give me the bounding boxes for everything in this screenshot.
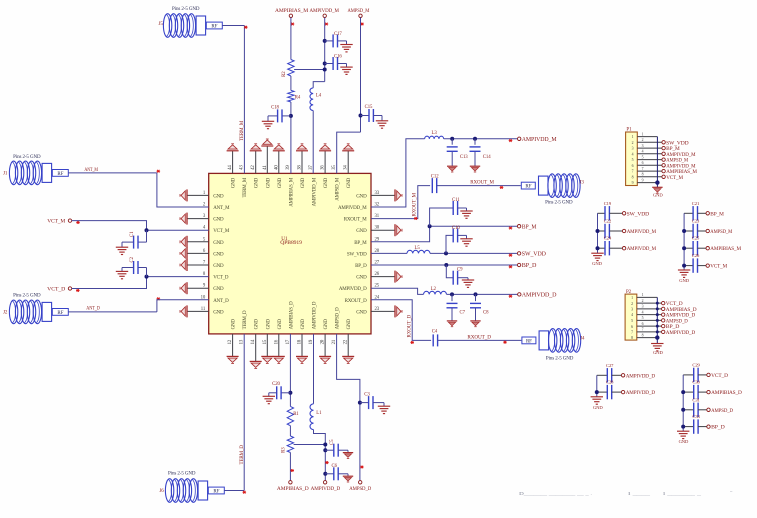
svg-text:8: 8	[632, 175, 634, 179]
power flag AMPSD_M	[662, 158, 665, 161]
wire to pin 37	[312, 111, 314, 174]
wire to J6	[224, 490, 244, 492]
wire	[290, 76, 292, 90]
svg-text:RXOUT_M: RXOUT_M	[470, 180, 494, 186]
capacitor C24	[598, 247, 606, 249]
svg-text:1: 1	[642, 132, 644, 136]
capacitor C25	[684, 247, 693, 249]
svg-text:VCT_M: VCT_M	[666, 175, 683, 181]
svg-text:Pins 2-5 GND: Pins 2-5 GND	[172, 7, 200, 12]
ground cap bank	[677, 431, 689, 438]
wire TERM_M	[222, 25, 244, 27]
svg-text:C6: C6	[332, 464, 338, 469]
svg-text:ANT_D: ANT_D	[213, 299, 229, 304]
wire ANT_D	[68, 311, 157, 313]
svg-text:GND: GND	[213, 310, 224, 315]
wire AMPIBIAS_D pin 17	[289, 334, 291, 407]
svg-text:AMPSD_M: AMPSD_M	[336, 177, 341, 201]
svg-text:C5: C5	[330, 439, 335, 445]
svg-text:J1: J1	[3, 171, 8, 176]
svg-text:5: 5	[642, 155, 644, 159]
capacitor C29	[683, 374, 694, 376]
ground pin 5	[187, 241, 208, 243]
ground P2	[651, 344, 663, 351]
wire pin 19	[313, 334, 315, 404]
ground cap bank	[591, 253, 603, 260]
resistor R1	[287, 406, 293, 425]
svg-text:C26: C26	[692, 253, 700, 258]
svg-text:RXOUT_M: RXOUT_M	[344, 218, 368, 223]
svg-text:3: 3	[632, 147, 634, 151]
power flag SW_VDD	[662, 141, 665, 144]
wire P2 pin 4	[637, 314, 662, 316]
svg-text:RF: RF	[57, 172, 63, 177]
svg-text:RF: RF	[57, 311, 63, 316]
wire AMPIBIAS_M	[290, 18, 292, 60]
ground pin 12	[232, 334, 234, 357]
svg-text:C31: C31	[692, 397, 700, 402]
svg-text:8: 8	[631, 336, 633, 340]
connector J4	[522, 337, 536, 344]
svg-text:ANT_D: ANT_D	[86, 306, 100, 312]
svg-text:GND: GND	[679, 439, 689, 444]
svg-text:C2: C2	[130, 256, 135, 262]
wire pin 27 BP_D	[371, 264, 518, 266]
wire P2 pin 8	[637, 337, 658, 339]
svg-text:1: 1	[632, 135, 634, 139]
op-amp U1 QPB8919 IC body	[209, 173, 371, 334]
capacitor C4	[433, 334, 437, 346]
svg-text:RF: RF	[211, 25, 217, 30]
svg-text:C20: C20	[272, 382, 280, 387]
svg-text:8: 8	[642, 333, 644, 337]
svg-text:AMPIVDD_D: AMPIVDD_D	[339, 287, 367, 292]
svg-text:VCT_D: VCT_D	[213, 276, 229, 281]
ground pin 42	[255, 151, 257, 174]
svg-text:C25: C25	[692, 236, 700, 241]
svg-text:R2: R2	[282, 71, 287, 77]
wire cap bank bus	[596, 375, 598, 397]
svg-text:BP_D: BP_D	[522, 263, 537, 269]
svg-text:4: 4	[631, 313, 633, 317]
power flag AMPIVDD_D	[621, 390, 624, 393]
wire	[289, 426, 291, 436]
wire C1	[146, 230, 148, 242]
ground pin 34	[347, 151, 349, 174]
ground C16	[340, 67, 352, 74]
svg-text:AMPIVDD_M: AMPIVDD_M	[313, 177, 318, 206]
power flag AMPIVDD_M	[662, 164, 665, 167]
svg-text:R3: R3	[282, 447, 287, 453]
power flag AMPIBIAS_M	[706, 247, 709, 250]
svg-text:D_______ ________ __ _ .: D_______ ________ __ _ .	[519, 491, 592, 496]
inductor L2	[424, 291, 447, 294]
ground C5	[343, 453, 353, 459]
capacitor C30	[683, 391, 694, 393]
power flag BP_D	[517, 263, 520, 266]
svg-text:GND: GND	[324, 319, 329, 330]
svg-text:C16: C16	[334, 55, 342, 60]
svg-text:C21: C21	[692, 201, 700, 206]
svg-text:GND: GND	[356, 310, 367, 315]
inductor L3	[425, 136, 444, 139]
ground pin 40	[278, 151, 280, 174]
svg-text:Pins 2-5 GND: Pins 2-5 GND	[545, 201, 573, 206]
power flag SW_VDD	[622, 212, 625, 215]
capacitor C21	[684, 212, 693, 214]
capacitor C10	[446, 235, 453, 253]
svg-text:P1: P1	[626, 128, 632, 133]
svg-text:GND: GND	[266, 319, 271, 330]
capacitor C33	[683, 426, 694, 428]
wire TERM_D	[243, 334, 245, 491]
svg-text:AMPSD_M: AMPSD_M	[348, 8, 370, 14]
wire to pin 2	[157, 173, 209, 207]
svg-text:VCT_M: VCT_M	[47, 219, 65, 225]
svg-text:C13: C13	[460, 155, 468, 160]
wire pin 25	[371, 288, 424, 294]
ground pin 9	[187, 287, 208, 289]
wire P2 pin 6	[637, 325, 662, 327]
svg-text:C17: C17	[334, 32, 342, 37]
wire P1 pin 4	[637, 153, 662, 155]
power flag AMPIVDD_M	[622, 247, 625, 250]
ground C9	[462, 280, 474, 287]
ground pin 14	[255, 334, 257, 362]
svg-text:RXOUT_M: RXOUT_M	[412, 192, 417, 216]
svg-text:2: 2	[642, 138, 644, 142]
svg-text:9: 9	[642, 178, 644, 182]
ground C10	[460, 239, 472, 246]
svg-text:6: 6	[632, 164, 634, 168]
svg-text:l ____: l ____	[628, 491, 652, 496]
wire P1 pin 1	[637, 136, 657, 138]
wire pin 31 RXOUT_M	[371, 186, 430, 219]
svg-text:GND: GND	[278, 319, 283, 330]
svg-text:ANT_M: ANT_M	[213, 206, 230, 211]
svg-text:AMPIVDD_M: AMPIVDD_M	[627, 246, 657, 252]
svg-text:5: 5	[642, 316, 644, 320]
wire pin 28	[371, 252, 407, 254]
wire P2 pin 1	[637, 296, 658, 298]
svg-text:BP_M: BP_M	[710, 211, 724, 217]
ground C14	[470, 166, 480, 172]
svg-text:C23: C23	[692, 219, 700, 224]
power flag AMPIVDD_D	[518, 293, 521, 296]
svg-text:ANT_M: ANT_M	[84, 167, 98, 173]
ground C17	[340, 45, 352, 52]
svg-text:TERM_M: TERM_M	[240, 120, 245, 141]
svg-text:5: 5	[632, 158, 634, 162]
ground pin 23	[371, 310, 395, 312]
svg-text:AMPIVDD_D: AMPIVDD_D	[626, 390, 656, 396]
svg-text:AMPIVDD_D: AMPIVDD_D	[666, 330, 696, 336]
svg-text:C24: C24	[604, 236, 612, 241]
wire P2 pin 3	[637, 308, 662, 310]
svg-text:VCT_D: VCT_D	[47, 287, 65, 293]
svg-text:VCT_M: VCT_M	[710, 264, 727, 270]
svg-text:GND: GND	[356, 194, 367, 199]
svg-text:AMPIVDD_D: AMPIVDD_D	[626, 373, 656, 379]
ground pin 41	[266, 146, 268, 173]
ground pin 1	[187, 194, 208, 196]
wire to pin 39	[290, 102, 292, 173]
svg-text:6: 6	[642, 322, 644, 326]
wire AMPIVDD_D flag	[447, 293, 518, 295]
wire P2 pin 5	[637, 319, 662, 321]
svg-text:GND: GND	[653, 350, 663, 355]
svg-text:3: 3	[631, 308, 633, 312]
svg-text:AMPIVDD_D: AMPIVDD_D	[311, 486, 341, 492]
svg-text:BP_D: BP_D	[711, 425, 725, 431]
svg-text:Pins 2-5 GND: Pins 2-5 GND	[13, 294, 41, 299]
wire P2 pin 2	[637, 302, 662, 304]
ground C2	[116, 271, 128, 278]
svg-text:C14: C14	[483, 155, 491, 160]
inductor L4	[310, 88, 313, 111]
power flag AMPIBIAS_M	[662, 169, 665, 172]
power flag AMPSD_M	[706, 229, 709, 232]
ground pin 38	[301, 151, 303, 174]
svg-text:AMPIVDD_M: AMPIVDD_M	[627, 229, 657, 235]
svg-text:AMPSD_D: AMPSD_D	[349, 486, 371, 492]
wire P2 gnd bus	[656, 297, 658, 343]
wire to flag	[289, 453, 291, 481]
wire RXOUT_D	[438, 339, 522, 341]
capacitor C28	[597, 391, 608, 393]
svg-text:C28: C28	[606, 380, 614, 385]
svg-text:C22: C22	[604, 219, 612, 224]
wire pin 29 BP_M	[371, 226, 518, 242]
svg-text:AMPIBIAS_D: AMPIBIAS_D	[711, 390, 742, 396]
power flag BP_D	[707, 425, 710, 428]
svg-text:BP_D: BP_D	[355, 264, 367, 269]
svg-text:AMPIVDD_D: AMPIVDD_D	[522, 293, 557, 299]
wire AMPIVDD_M	[324, 18, 326, 82]
svg-text:GND: GND	[213, 287, 224, 292]
capacitor C3	[360, 402, 369, 404]
svg-text:GND: GND	[593, 405, 603, 410]
svg-text:GND: GND	[301, 319, 306, 330]
svg-text:AMPSD_M: AMPSD_M	[710, 229, 732, 235]
svg-text:2: 2	[642, 299, 644, 303]
ground C3	[378, 406, 390, 413]
capacitor C11	[430, 208, 454, 226]
wire R3 to AMPIVDD_D net	[294, 444, 326, 446]
wire AMPSD_M	[360, 18, 362, 133]
svg-text:L2: L2	[431, 287, 437, 292]
power flag AMPIVDD_D	[662, 330, 665, 333]
capacitor C5	[325, 449, 334, 451]
svg-text:GND: GND	[278, 177, 283, 188]
ground cap bank	[591, 397, 603, 404]
capacitor C13	[451, 139, 453, 145]
wire cap bank bus	[597, 213, 599, 253]
wire VCT_M	[72, 221, 209, 231]
svg-text:RXOUT_D: RXOUT_D	[345, 299, 368, 304]
svg-text:GND: GND	[592, 261, 602, 266]
svg-text:BP_M: BP_M	[522, 224, 537, 230]
svg-text:L5: L5	[415, 246, 421, 251]
wire C2	[146, 268, 148, 277]
svg-text:C18: C18	[271, 106, 279, 111]
svg-text:AMPSD_D: AMPSD_D	[336, 307, 341, 330]
power flag AMPSD_D	[359, 481, 362, 484]
svg-text:4: 4	[632, 152, 634, 156]
capacitor C6	[325, 473, 334, 475]
power flag BP_M	[662, 146, 665, 149]
connector J3	[521, 182, 535, 189]
inductor L1	[310, 404, 314, 430]
ground C1	[116, 247, 128, 254]
svg-text:P2: P2	[626, 290, 632, 295]
svg-text:L4: L4	[316, 94, 322, 99]
svg-text:9: 9	[632, 181, 634, 185]
connector header P1	[626, 132, 638, 186]
svg-text:TERM_D: TERM_D	[240, 445, 245, 465]
svg-text:AMPIVDD_M: AMPIVDD_M	[338, 206, 367, 211]
svg-text:GND: GND	[255, 177, 260, 188]
svg-text:8: 8	[642, 173, 644, 177]
svg-text:AMPIBIAS_D: AMPIBIAS_D	[289, 301, 294, 330]
wire pin 21 AMPSD_D	[337, 334, 360, 481]
svg-text:7: 7	[631, 331, 633, 335]
svg-text:GND: GND	[232, 177, 237, 188]
ground pin 6	[187, 252, 208, 254]
svg-text:C30: C30	[692, 380, 700, 385]
wire cap bank bus	[683, 213, 685, 270]
wire AMPIVDD_M flag	[444, 138, 518, 140]
wire R2 to AMPIVDD_M net	[294, 69, 325, 71]
svg-text:7: 7	[642, 328, 644, 332]
svg-text:C11: C11	[452, 198, 460, 203]
wire P1 pin 6	[637, 164, 662, 166]
svg-text:AMPIVDD_D: AMPIVDD_D	[313, 301, 318, 329]
capacitor C7	[451, 294, 453, 301]
svg-text:3: 3	[642, 305, 644, 309]
svg-text:J5: J5	[159, 22, 164, 27]
svg-text:C8: C8	[483, 310, 489, 315]
svg-text:C10: C10	[452, 226, 460, 231]
power flag AMPIVDD_M	[622, 229, 625, 232]
ground pin 15	[266, 334, 268, 357]
svg-text:L1: L1	[316, 411, 322, 416]
wire to L4	[313, 82, 325, 88]
svg-text:VCT_M: VCT_M	[213, 229, 230, 234]
svg-text:L3: L3	[432, 131, 438, 136]
svg-text:C19: C19	[604, 201, 612, 206]
svg-text:BP_M: BP_M	[354, 241, 367, 246]
svg-text:7: 7	[632, 170, 634, 174]
capacitor C19	[598, 212, 606, 214]
svg-text:GND: GND	[679, 278, 689, 283]
capacitor C20	[281, 392, 290, 394]
svg-text:GND: GND	[213, 218, 224, 223]
svg-text:AMPIBIAS_M: AMPIBIAS_M	[275, 8, 308, 14]
ground pin 16	[278, 334, 280, 357]
capacitor C22	[598, 230, 606, 232]
ground C15	[376, 121, 388, 128]
svg-text:C29: C29	[692, 362, 700, 367]
svg-text:RF: RF	[526, 339, 532, 344]
svg-text:GND: GND	[356, 229, 367, 234]
svg-text:C1: C1	[130, 231, 135, 237]
ground pin 3	[187, 218, 208, 220]
svg-text:AMPIVDD_M: AMPIVDD_M	[522, 137, 557, 143]
capacitor C16	[325, 63, 333, 65]
svg-text:AMPIBIAS_D: AMPIBIAS_D	[277, 486, 309, 492]
svg-text:SW_VDD: SW_VDD	[522, 252, 546, 258]
svg-text:R1: R1	[293, 412, 299, 417]
wire RXOUT_M	[437, 185, 521, 187]
resistor R4	[288, 90, 294, 102]
ground C20	[263, 396, 275, 403]
resistor R3	[287, 436, 293, 453]
svg-text:GND: GND	[301, 177, 306, 188]
capacitor C15	[361, 115, 370, 117]
svg-text:J3: J3	[580, 180, 585, 185]
svg-text:AMPIBIAS_M: AMPIBIAS_M	[710, 246, 741, 252]
wire to pin 35	[337, 132, 361, 173]
svg-text:GND: GND	[653, 192, 663, 197]
svg-text:2: 2	[631, 302, 633, 306]
wire to pin 10	[157, 300, 209, 312]
svg-text:3: 3	[642, 144, 644, 148]
power flag AMPIVDD_D	[662, 313, 665, 316]
ground pin 44	[232, 151, 234, 174]
wire P1 pin 8	[637, 176, 662, 178]
wire cap bank bus	[682, 375, 684, 431]
wire VCT_D	[72, 277, 209, 289]
svg-text:GND: GND	[347, 319, 352, 330]
svg-text:C15: C15	[365, 105, 373, 110]
svg-text:4: 4	[642, 150, 644, 154]
ground pin 33	[371, 194, 395, 196]
wire pin 24 RXOUT_D	[371, 300, 431, 341]
svg-text:5: 5	[631, 319, 633, 323]
resistor R2	[288, 60, 294, 77]
power flag AMPIVDD_M	[518, 137, 521, 140]
svg-text:C9: C9	[457, 267, 463, 272]
svg-text:7: 7	[642, 167, 644, 171]
svg-text:C7: C7	[460, 310, 466, 315]
svg-text:C27: C27	[606, 363, 614, 368]
svg-text:AMPIVDD_M: AMPIVDD_M	[310, 8, 339, 14]
ground C18	[262, 121, 274, 128]
ground pin 20	[324, 334, 326, 357]
capacitor C14	[474, 139, 476, 145]
power flag BP_M	[517, 225, 520, 228]
power flag SW_VDD	[517, 252, 520, 255]
svg-text:6: 6	[642, 161, 644, 165]
power flag VCT_M	[662, 175, 665, 178]
capacitor C2	[134, 261, 138, 274]
power flag BP_D	[662, 324, 665, 327]
ground P1	[652, 187, 662, 193]
svg-text:l _______ _: l _______ _	[663, 491, 702, 496]
svg-text:R4: R4	[295, 96, 301, 101]
ground pin 18	[301, 334, 303, 357]
capacitor C9	[446, 265, 453, 278]
wire pin 32	[371, 139, 425, 207]
ground pin 7	[187, 264, 208, 266]
capacitor C27	[597, 374, 608, 376]
power flag AMPIBIAS_D	[289, 481, 292, 484]
power flag AMPSD_D	[707, 408, 710, 411]
svg-text:J4: J4	[580, 337, 585, 342]
svg-text:RXOUT_D: RXOUT_D	[467, 335, 491, 341]
svg-text:39: 39	[286, 165, 291, 170]
